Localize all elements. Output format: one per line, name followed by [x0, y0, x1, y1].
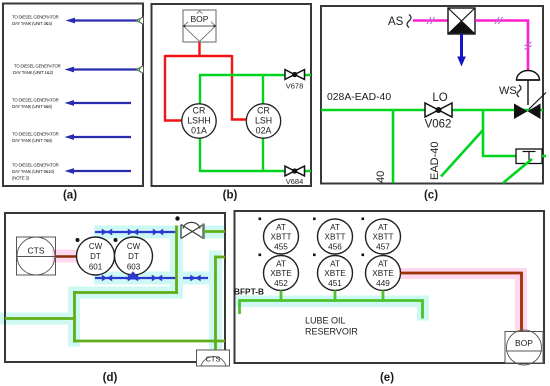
wire: green bottom header to V684: [199, 170, 311, 172]
instrument CR LSH 02A: [246, 104, 280, 138]
svg-text:456: 456: [328, 243, 342, 252]
svg-text:XBTT: XBTT: [373, 233, 394, 242]
svg-text:CTS: CTS: [206, 355, 221, 364]
svg-text:AT: AT: [276, 223, 286, 232]
svg-text:LO: LO: [432, 92, 447, 104]
svg-text:BFPT-B: BFPT-B: [234, 287, 264, 297]
wire: blue header lower left: [95, 277, 176, 279]
label: TO DIESEL GENERATOR DAY TANK (UNIT 1&2): [13, 64, 61, 76]
svg-text:LUBE OIL: LUBE OIL: [305, 316, 346, 326]
svg-text:603: 603: [127, 263, 141, 272]
svg-text:(NOTE 3): (NOTE 3): [12, 176, 30, 181]
label: TO DIESEL GENERATOR DAY TANK (UNIT 9&10) (NOTE 3): [12, 163, 59, 181]
caption (a): [63, 190, 77, 202]
label: TO DIESEL GENERATOR DAY TANK (UNIT 3&4): [12, 15, 59, 27]
valve V684: [285, 166, 305, 186]
off-page connector BOP: [183, 10, 216, 42]
svg-text:449: 449: [376, 279, 390, 288]
instrument AT XBTE 452: [264, 256, 299, 291]
label 028A-EAD-40: [327, 92, 391, 103]
svg-text:CR: CR: [257, 106, 270, 116]
wire: red signal from BOP down: [198, 42, 200, 57]
svg-text:TO DIESEL GENERATOR: TO DIESEL GENERATOR: [12, 15, 59, 20]
svg-text:40: 40: [375, 171, 387, 183]
svg-text:V684: V684: [286, 177, 304, 186]
marker dot near CW DT 603: [114, 238, 118, 242]
svg-text:XBTE: XBTE: [270, 269, 292, 278]
svg-text:TO DIESEL GENERATOR: TO DIESEL GENERATOR: [12, 132, 59, 137]
wire: line 4 to diesel generator day tank unit 7&8: [65, 134, 132, 140]
svg-text:V062: V062: [425, 119, 452, 131]
svg-text:DAY TANK (UNIT 5&6): DAY TANK (UNIT 5&6): [12, 104, 53, 109]
off-page connector arrow line 2: [136, 66, 143, 74]
caption (e): [380, 372, 394, 384]
svg-text:CR: CR: [193, 106, 206, 116]
off-page connector CTS (left): [17, 237, 56, 275]
wire: green drop into CR LSH 02A: [262, 75, 264, 105]
instrument AT XBTE 449: [366, 256, 401, 291]
svg-text:452: 452: [274, 279, 288, 288]
wire: green from globe valve to right border: [204, 230, 225, 233]
caption (d): [103, 372, 118, 384]
wire: blue header top: [95, 231, 176, 233]
wire: green branch down (line 40): [392, 110, 395, 183]
svg-text:601: 601: [89, 263, 103, 272]
svg-text:EAD-40: EAD-40: [429, 141, 441, 180]
svg-text:AT: AT: [330, 223, 340, 232]
label: TO DIESEL GENERATOR DAY TANK (UNIT 7&8): [12, 132, 59, 144]
solenoid valve with fail arrow (top of panel c): [448, 8, 475, 34]
diaphragm actuator WS: [499, 71, 540, 106]
wire: green main line 028A-EAD-40: [321, 109, 543, 112]
svg-text:BOP: BOP: [191, 14, 209, 24]
wire: green horizontal from left border: [5, 317, 75, 320]
svg-text:AS: AS: [388, 16, 404, 28]
wire: green right top stub: [214, 256, 225, 259]
svg-text:TO DIESEL GENERATOR: TO DIESEL GENERATOR: [12, 163, 59, 168]
svg-text:CW: CW: [127, 242, 141, 251]
reducer / instrument box: [516, 149, 542, 164]
valve (blue) lower under arrow: [128, 275, 138, 282]
blue fail-direction arrow: [457, 34, 466, 67]
panel (d) border: [5, 213, 225, 362]
svg-text:DAY TANK (UNIT 9&10): DAY TANK (UNIT 9&10): [12, 169, 55, 174]
svg-text:(e): (e): [380, 372, 394, 384]
off-page connector arrow line 1: [136, 17, 143, 25]
label: TO DIESEL GENERATOR DAY TANK (UNIT 5&6): [12, 98, 59, 110]
wire: green from LSH 02A bottom: [262, 137, 264, 172]
valve V678: [285, 70, 305, 91]
svg-text:CW: CW: [89, 242, 103, 251]
wire: green top header to V678: [199, 74, 311, 76]
instrument CW DT 603: [115, 237, 153, 275]
wire: green vertical left: [73, 291, 76, 343]
instrument AT XBTE 451: [318, 256, 353, 291]
pink highlight behind maroon line panel (e): [400, 268, 527, 333]
svg-text:LSHH: LSHH: [187, 116, 210, 126]
valve V062 with LO label: [425, 92, 452, 131]
instrument AT XBTT 455: [264, 219, 299, 254]
wire: line 2 to diesel generator day tank unit 1&2: [65, 67, 138, 73]
wire: red horizontal header: [165, 55, 232, 57]
wire: green diagonal into reducer box: [503, 159, 532, 183]
wire: maroon from XBTE 449 to BOP: [401, 273, 522, 332]
wire: blue header lower right segment: [183, 277, 208, 279]
wire: green stub from XBTE 452: [280, 291, 283, 302]
svg-text:XBTE: XBTE: [372, 269, 394, 278]
valve (blue) top 3: [153, 229, 163, 236]
instrument AT XBTT 457: [366, 219, 401, 254]
blue arrow up into CW DT 603: [126, 271, 140, 279]
off-page connector BOP (bottom right): [505, 330, 543, 365]
instrument AT XBTT 456: [318, 219, 353, 254]
svg-text:XBTE: XBTE: [324, 269, 346, 278]
marker squares panel (e): [259, 218, 365, 257]
globe valve top right of panel (d): [181, 222, 204, 239]
panel (a) border: [3, 4, 143, 187]
svg-text:XBTT: XBTT: [271, 233, 292, 242]
svg-text:AT: AT: [276, 260, 286, 269]
svg-text:DT: DT: [128, 252, 139, 261]
svg-text:AT: AT: [378, 260, 388, 269]
valve (blue) top 2: [128, 229, 138, 236]
svg-text:02A: 02A: [256, 126, 272, 136]
svg-text:451: 451: [328, 279, 342, 288]
svg-text:BOP: BOP: [515, 338, 533, 348]
svg-text:AT: AT: [330, 260, 340, 269]
wire: green horizontal mid: [73, 291, 178, 294]
label LUBE OIL RESERVOIR: [305, 316, 358, 337]
label 40 (rotated): [375, 171, 387, 183]
svg-text:(c): (c): [424, 190, 438, 202]
wire: green stub right of reducer box: [542, 155, 546, 158]
pink highlight behind CTS link: [52, 250, 80, 263]
wire: green bottom header: [73, 340, 225, 343]
wire: line 3 to diesel generator day tank unit 5&6: [65, 100, 132, 106]
caption (b): [223, 190, 238, 202]
wire: green lube oil header: [240, 301, 423, 319]
svg-text:(b): (b): [223, 190, 238, 202]
svg-text:WS: WS: [499, 85, 517, 97]
cyan highlight bands panel (d): [0, 226, 225, 354]
svg-text:DT: DT: [90, 252, 101, 261]
off-page connector CTS (bottom right, clipped): [197, 350, 230, 366]
wire: red right branch down to LSH 02A: [232, 55, 248, 120]
svg-text:DAY TANK (UNIT 3&4): DAY TANK (UNIT 3&4): [12, 21, 53, 26]
valve (blue) lower 2: [152, 275, 162, 282]
panel (c) border: [321, 6, 543, 184]
wire: line 5 to diesel generator day tank unit 9&10: [65, 168, 132, 174]
wire: green vertical below globe valve: [175, 226, 178, 295]
svg-text:CTS: CTS: [28, 246, 45, 256]
control valve under WS (black): [514, 93, 546, 120]
wire: green right vertical to CTS: [214, 256, 217, 352]
svg-text:TO DIESEL GENERATOR: TO DIESEL GENERATOR: [12, 98, 59, 103]
svg-text:(d): (d): [103, 372, 118, 384]
valve (blue) top 1: [102, 229, 112, 236]
wire: red left branch down to LSHH 01A: [165, 55, 182, 121]
cyan highlight band panel (e): [236, 296, 429, 321]
valve (blue) lower 3: [190, 275, 200, 282]
wire: maroon link CTS to CW DT 601: [56, 255, 78, 258]
wire: green diagonal EAD-40: [441, 130, 483, 177]
svg-text:028A-EAD-40: 028A-EAD-40: [327, 92, 391, 103]
svg-text:TO DIESEL GENERATOR: TO DIESEL GENERATOR: [14, 64, 61, 69]
label BFPT-B: [234, 287, 264, 297]
valve (blue) lower 1: [102, 275, 112, 282]
svg-text:457: 457: [376, 243, 390, 252]
svg-text:455: 455: [274, 243, 288, 252]
svg-text:RESERVOIR: RESERVOIR: [305, 327, 358, 337]
panel (b) border: [152, 4, 312, 186]
wire: green drop into CR LSHH 01A: [199, 75, 201, 105]
svg-text:XBTT: XBTT: [325, 233, 346, 242]
svg-text:01A: 01A: [191, 126, 207, 136]
instrument CW DT 601: [77, 237, 115, 275]
wire: green stub from XBTE 451: [334, 291, 337, 302]
label AS with signal squiggle: [388, 15, 411, 29]
caption (c): [424, 190, 438, 202]
wire: line 1 to diesel generator day tank unit 3&4: [66, 18, 138, 24]
wire: magenta signal AS to solenoid valve: [413, 17, 449, 24]
svg-text:LSH: LSH: [255, 116, 272, 126]
marker dot near top-right valve: [175, 216, 179, 220]
svg-text:DAY TANK (UNIT 1&2): DAY TANK (UNIT 1&2): [13, 70, 54, 75]
label EAD-40 (rotated): [429, 141, 441, 180]
svg-text:V678: V678: [286, 82, 304, 91]
marker dot near CW DT 601: [76, 238, 80, 242]
svg-text:AT: AT: [378, 223, 388, 232]
instrument CR LSHH 01A: [182, 104, 216, 138]
wire: magenta signal valve to WS actuator: [475, 17, 532, 71]
svg-text:(a): (a): [63, 190, 77, 202]
wire: green stub from XBTE 449: [382, 291, 385, 302]
svg-text:DAY TANK (UNIT 7&8): DAY TANK (UNIT 7&8): [12, 138, 53, 143]
wire: green branch down right: [483, 110, 516, 156]
wire: green from LSHH 01A bottom: [199, 137, 201, 172]
panel (e) border: [235, 211, 545, 363]
